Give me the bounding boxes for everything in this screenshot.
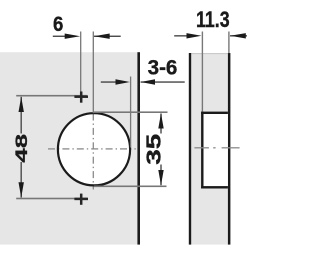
svg-text:35: 35 bbox=[143, 134, 166, 165]
svg-text:6: 6 bbox=[53, 13, 63, 36]
svg-text:48: 48 bbox=[12, 134, 31, 163]
svg-text:3-6: 3-6 bbox=[148, 57, 178, 80]
svg-text:11.3: 11.3 bbox=[196, 8, 230, 32]
